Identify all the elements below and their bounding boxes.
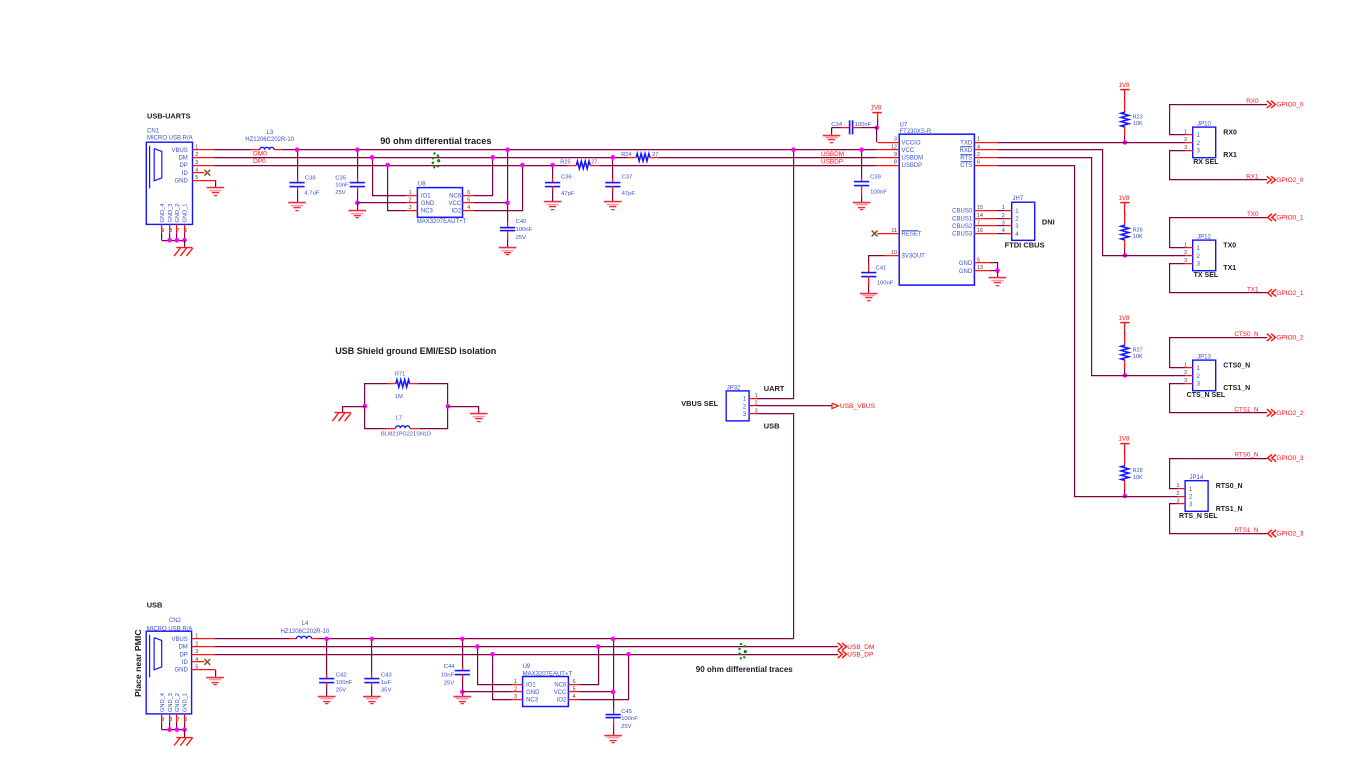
- svg-text:VBUS: VBUS: [171, 148, 187, 154]
- wire CN1 shell to earth: [184, 240, 186, 247]
- svg-text:VCCIO: VCCIO: [902, 140, 921, 146]
- junction U7 GND node: [995, 268, 1000, 273]
- wire U7 GND to ground: [997, 271, 999, 278]
- svg-text:R28: R28: [1133, 468, 1143, 474]
- svg-text:RTS1_N: RTS1_N: [1216, 506, 1243, 513]
- svg-text:3V3OUT: 3V3OUT: [902, 254, 926, 260]
- wire CN1 shell ground bus: [162, 240, 185, 242]
- svg-text:R26: R26: [1133, 227, 1143, 233]
- capacitor C41 100nF: [861, 264, 894, 293]
- svg-text:USBDP: USBDP: [821, 159, 843, 166]
- svg-text:GND_2: GND_2: [175, 693, 181, 712]
- wire JP13 pin1 to port: [1170, 338, 1268, 368]
- svg-text:GPIO0_3: GPIO0_3: [1276, 455, 1303, 462]
- power symbol 1V8 at R26: [1119, 195, 1130, 216]
- svg-text:VBUS SEL: VBUS SEL: [681, 399, 718, 408]
- svg-text:10K: 10K: [1133, 234, 1143, 240]
- CN2 pin 4 ID stub: [192, 661, 205, 663]
- svg-text:3: 3: [1184, 378, 1187, 384]
- inductor L3 HZ1206C202R-10: [245, 130, 294, 150]
- wire VBUS2 CN2 to L4: [215, 638, 290, 640]
- svg-text:100nF: 100nF: [870, 190, 887, 196]
- svg-text:1V8: 1V8: [1119, 195, 1130, 202]
- wire DP to U8 NC3: [388, 165, 407, 211]
- jumper JP13 CTS_N SEL: [1185, 354, 1215, 390]
- wire VBUS2 down to C45: [613, 639, 615, 710]
- junction 1V8 / C34 / VCCIO node: [875, 126, 880, 131]
- wire JP12 pin1 to port: [1170, 218, 1268, 248]
- svg-text:1V8: 1V8: [871, 105, 882, 112]
- svg-text:27: 27: [652, 152, 658, 158]
- svg-text:DM: DM: [178, 645, 187, 651]
- junction R23 / RX SEL pin2 node: [1123, 140, 1128, 145]
- wire C34 node to U7 VCCIO: [876, 128, 878, 142]
- svg-text:DM0: DM0: [253, 151, 267, 158]
- svg-text:47pF: 47pF: [622, 191, 636, 197]
- wire DM bus R24 to U7: [658, 157, 877, 159]
- svg-text:FTDI CBUS: FTDI CBUS: [1005, 240, 1045, 249]
- junction DM2 / U9 IO1 riser: [475, 644, 480, 649]
- svg-text:DP0: DP0: [253, 158, 266, 165]
- ground below C44: [454, 697, 472, 704]
- junction CN1 shell gnd b: [175, 238, 180, 243]
- port USB_DM: [838, 643, 842, 650]
- svg-text:1V8: 1V8: [1119, 82, 1130, 89]
- svg-text:VCC: VCC: [554, 690, 567, 696]
- resistor R23 10K: [1121, 99, 1143, 142]
- svg-text:GND: GND: [174, 178, 188, 184]
- svg-text:GND_3: GND_3: [168, 204, 174, 223]
- svg-text:NC6: NC6: [554, 682, 567, 688]
- port GPIO0_0: [1267, 101, 1271, 108]
- capacitor C34 100nF (horizontal): [831, 120, 877, 135]
- junction CN1 shell gnd c: [182, 238, 187, 243]
- capacitor C36 47pF: [545, 165, 575, 202]
- ground below C45: [604, 736, 622, 743]
- svg-text:HZ1206C202R-10: HZ1206C202R-10: [245, 137, 294, 143]
- wire JP10 pin1 to port: [1170, 105, 1268, 135]
- resistor R24 27: [621, 152, 658, 161]
- svg-text:DP: DP: [179, 652, 187, 658]
- svg-text:USB_DM: USB_DM: [847, 644, 874, 651]
- svg-text:C40: C40: [516, 219, 528, 225]
- ground below C43: [363, 697, 381, 704]
- jumper JP32 VBUS SEL: [726, 386, 757, 421]
- svg-text:100nF: 100nF: [877, 280, 894, 286]
- junction U8 VCC / C40 node: [505, 201, 510, 206]
- svg-text:2: 2: [1177, 491, 1180, 497]
- svg-text:TX1: TX1: [1223, 265, 1236, 272]
- capacitor C44 10nF 25V: [441, 639, 470, 696]
- svg-text:GND: GND: [421, 201, 435, 207]
- junction VBUS2 / C43: [370, 637, 375, 642]
- svg-text:U7: U7: [900, 122, 908, 128]
- wire JP14 pin1 to port: [1170, 459, 1268, 489]
- svg-text:TX1: TX1: [1247, 287, 1259, 294]
- svg-text:3: 3: [1184, 258, 1187, 264]
- wire JP32 pin2 to USB_VBUS port: [757, 405, 832, 407]
- svg-text:5: 5: [573, 686, 576, 692]
- svg-text:1M: 1M: [395, 394, 403, 400]
- ground below C35: [349, 211, 367, 218]
- svg-text:TX SEL: TX SEL: [1194, 272, 1219, 279]
- ground below C42: [318, 697, 336, 704]
- ground at shield right: [470, 414, 488, 422]
- svg-text:100nF: 100nF: [516, 227, 533, 233]
- junction DM2 / U9 NC6 riser: [596, 644, 601, 649]
- svg-text:6: 6: [977, 160, 980, 166]
- wire VBUS bus L3 to U7 VCC: [282, 149, 877, 151]
- inductor L4 HZ1206C202R-10: [281, 621, 330, 639]
- port GPIO0_2: [1267, 334, 1271, 341]
- svg-text:BLM21PG221SN1D: BLM21PG221SN1D: [381, 432, 431, 438]
- svg-text:ID: ID: [182, 171, 189, 177]
- ground below C37: [604, 202, 622, 210]
- JP10 pin numbers: [1184, 130, 1187, 151]
- wire JP13 pin3 to port: [1170, 384, 1268, 413]
- U7 left pin names: [902, 140, 926, 259]
- svg-text:25V: 25V: [335, 190, 346, 196]
- svg-text:IO2: IO2: [452, 209, 462, 215]
- svg-text:2: 2: [409, 197, 412, 203]
- svg-text:8: 8: [894, 160, 897, 166]
- svg-text:USB_DP: USB_DP: [847, 652, 873, 659]
- CN1 pin 5 GND stub: [193, 180, 216, 182]
- svg-text:HZ1206C202R-10: HZ1206C202R-10: [281, 629, 330, 635]
- svg-text:R24: R24: [621, 152, 631, 158]
- junction VBUS / C35: [355, 147, 360, 152]
- junction C35 / U8 GND node: [355, 201, 360, 206]
- ground below C36: [544, 202, 562, 210]
- ferrite bead L7 BLM21PG221SN1D: [381, 416, 431, 438]
- ground below U7 GND pins: [989, 278, 1007, 286]
- JP32 pin numbers: [755, 393, 758, 414]
- earth ground below CN2: [174, 738, 193, 746]
- svg-text:25V: 25V: [336, 688, 347, 694]
- svg-text:25V: 25V: [516, 235, 527, 241]
- U8 pin numbers: [409, 190, 471, 211]
- junction DP / U8 IO2 riser: [520, 163, 525, 168]
- ESD protector U9 MAX3207EAUT+T: [512, 664, 580, 706]
- resistor R71 1M: [388, 371, 418, 400]
- junction DM / U8 NC6 riser: [491, 155, 496, 160]
- svg-text:C37: C37: [622, 175, 633, 181]
- svg-text:RX1: RX1: [1223, 152, 1237, 159]
- JP13 pin numbers: [1184, 363, 1187, 384]
- wire U9 VCC to VBUS2 and C45: [579, 691, 613, 693]
- wire DM2 bus: [215, 646, 839, 648]
- svg-text:CN1: CN1: [147, 129, 160, 135]
- wire JP14 pin3 to port: [1170, 504, 1268, 534]
- resistor R26 10K: [1121, 212, 1143, 256]
- svg-text:1uF: 1uF: [381, 680, 392, 686]
- wire RXD to JP12 pin2: [997, 150, 1185, 256]
- wire CN2 shell ground bus: [162, 729, 185, 731]
- junction VBUS2 / C42: [324, 637, 329, 642]
- svg-text:DM: DM: [178, 155, 187, 161]
- U9 pin numbers: [514, 679, 576, 700]
- wire shield loop left: [365, 384, 388, 429]
- IC U7 FT230XS-R: [899, 122, 974, 285]
- svg-text:4: 4: [573, 694, 576, 700]
- capacitor C42 100nF: [319, 639, 353, 696]
- svg-text:10K: 10K: [1133, 475, 1143, 481]
- svg-text:90 ohm differential traces: 90 ohm differential traces: [380, 136, 491, 146]
- svg-text:3: 3: [195, 160, 198, 166]
- svg-text:RESET: RESET: [902, 232, 922, 238]
- wire VBUS2 L4 to JP32 riser: [319, 638, 794, 640]
- junction DP2 / U9 IO2 riser: [626, 652, 631, 657]
- svg-text:CTS: CTS: [960, 163, 972, 169]
- wire U9 NC6 to DM2: [579, 647, 598, 685]
- ground below C41: [860, 294, 878, 301]
- svg-text:6: 6: [573, 679, 576, 685]
- wire C35 node to U8 GND: [357, 202, 406, 204]
- junction DM / C37: [611, 155, 616, 160]
- svg-text:3: 3: [514, 694, 517, 700]
- svg-text:GND: GND: [174, 668, 188, 674]
- svg-text:CTS_N SEL: CTS_N SEL: [1187, 392, 1226, 399]
- CN1 pin 4 ID stub: [193, 172, 205, 174]
- svg-text:GND_1: GND_1: [183, 693, 189, 712]
- CN1 shell pin stubs: [162, 224, 185, 240]
- svg-text:L7: L7: [396, 416, 402, 422]
- U7 pin numbers: [891, 137, 983, 271]
- svg-text:GPIO2_1: GPIO2_1: [1276, 290, 1303, 297]
- capacitor C40 100nF 25V: [500, 219, 533, 247]
- wire DM to U8 IO1: [373, 157, 407, 195]
- junction VBUS2 / C44: [460, 637, 465, 642]
- svg-text:UART: UART: [764, 384, 785, 393]
- wire shield left to earth: [343, 407, 365, 413]
- svg-text:5: 5: [467, 197, 470, 203]
- svg-text:CTS1_N: CTS1_N: [1223, 385, 1250, 392]
- resistor R28 10K: [1121, 453, 1143, 497]
- connector CN2 MICRO USB R/A: [146, 618, 192, 714]
- svg-text:RTS1_N: RTS1_N: [1234, 527, 1258, 534]
- CN2 pin stubs 1-3: [192, 638, 215, 640]
- earth ground below CN1: [174, 248, 193, 257]
- CN1 pin stubs 1-3: [193, 149, 215, 151]
- svg-text:GPIO0_0: GPIO0_0: [1276, 102, 1303, 109]
- wire U9 IO2 to DP2: [579, 654, 628, 699]
- svg-text:GPIO0_2: GPIO0_2: [1276, 335, 1303, 342]
- junction R28 / RTS_N SEL pin2 node: [1123, 494, 1128, 499]
- wire DM2 to U9 IO1: [478, 647, 512, 685]
- wire CTS to JP14 pin2: [997, 166, 1177, 497]
- junction DM / U8 IO1 riser: [370, 155, 375, 160]
- wires CBUS0-3 to JH7: [997, 211, 1004, 234]
- svg-text:L3: L3: [267, 130, 274, 136]
- port USB_VBUS: [832, 403, 838, 408]
- svg-text:GND_1: GND_1: [183, 204, 189, 223]
- svg-text:3: 3: [894, 137, 897, 143]
- svg-text:4.7uF: 4.7uF: [304, 191, 319, 197]
- svg-text:C43: C43: [381, 672, 393, 678]
- svg-text:14: 14: [977, 213, 983, 219]
- resistor R27 10K: [1121, 332, 1143, 376]
- power symbol 1V8 at R28: [1119, 436, 1130, 457]
- svg-text:CN2: CN2: [169, 618, 182, 624]
- svg-text:R27: R27: [1133, 347, 1143, 353]
- svg-text:TXD: TXD: [960, 140, 973, 146]
- svg-text:1V8: 1V8: [1119, 315, 1130, 322]
- svg-text:4: 4: [467, 205, 470, 211]
- svg-text:27: 27: [591, 160, 597, 166]
- svg-text:CBUS0: CBUS0: [952, 209, 973, 215]
- svg-text:GND_4: GND_4: [160, 693, 166, 712]
- svg-text:TX0: TX0: [1223, 243, 1236, 250]
- wire shield right to ground: [448, 407, 479, 414]
- no-connect X on CN1 ID: [204, 170, 210, 176]
- wire TXD to JP10 pin2: [997, 142, 1185, 144]
- junction C44 / U9 GND node: [460, 690, 465, 695]
- wire U8 IO2 to DP: [474, 165, 523, 211]
- svg-text:VCC: VCC: [902, 148, 915, 154]
- wire JP12 pin3 to port: [1170, 264, 1268, 293]
- svg-text:1: 1: [409, 190, 412, 196]
- CN2 pin numbers 1-5: [195, 634, 198, 671]
- no-connect X on U7 RESET: [872, 231, 878, 237]
- svg-text:GND_2: GND_2: [175, 204, 181, 223]
- svg-text:25V: 25V: [444, 680, 455, 686]
- junction R26 / TX SEL pin2 node: [1123, 253, 1128, 258]
- svg-text:10K: 10K: [1133, 354, 1143, 360]
- svg-text:RX0: RX0: [1223, 130, 1237, 137]
- svg-text:2: 2: [514, 686, 517, 692]
- wire JP32 pin1 to VBUS top: [757, 150, 794, 399]
- svg-text:3: 3: [1184, 145, 1187, 151]
- U7 right pin stubs: [974, 143, 997, 271]
- svg-text:DNI: DNI: [1042, 218, 1055, 227]
- svg-text:CTS0_N: CTS0_N: [1234, 331, 1259, 338]
- wire U8 NC6 to DM: [474, 157, 493, 195]
- capacitor C37 47pF: [605, 157, 635, 201]
- wire VBUS bus CN1 to L3: [215, 149, 252, 151]
- CN1 pin numbers 1-5: [195, 145, 198, 182]
- svg-text:RX1: RX1: [1246, 174, 1259, 181]
- wire DP2 bus: [215, 654, 839, 656]
- svg-text:GPIO0_1: GPIO0_1: [1276, 215, 1303, 222]
- svg-text:USB: USB: [764, 422, 780, 431]
- wire CN2 shell to earth: [184, 730, 186, 738]
- ground at CN2 pin5: [206, 678, 224, 685]
- junction VBUS / JP32 riser: [791, 147, 796, 152]
- wire C35 node to earth drop: [357, 203, 359, 211]
- svg-text:IO1: IO1: [421, 193, 431, 199]
- wire DP bus CN1 to R25: [215, 165, 568, 167]
- power symbol 1V8 at R23: [1119, 82, 1130, 103]
- svg-text:JH7: JH7: [1013, 196, 1024, 202]
- wire 1V8 to C34 node: [877, 126, 879, 128]
- svg-text:NC3: NC3: [421, 209, 434, 215]
- port USB_DP: [838, 651, 842, 658]
- junction CN2 shell gnd c: [182, 727, 187, 732]
- CN2 shell pin numbers 9 8 7 6: [161, 717, 187, 723]
- svg-text:MAX3207EAUT+T: MAX3207EAUT+T: [417, 219, 467, 225]
- svg-text:GND: GND: [959, 269, 973, 275]
- svg-text:CBUS2: CBUS2: [952, 224, 973, 230]
- svg-text:GND_4: GND_4: [160, 204, 166, 223]
- no-connect X on CN2 ID: [204, 659, 210, 665]
- resistor R25 27: [560, 160, 599, 169]
- port GPIO0_3: [1268, 454, 1272, 461]
- svg-text:25V: 25V: [621, 724, 632, 730]
- svg-text:CBUS1: CBUS1: [952, 216, 973, 222]
- differential pair via marker (top) green dots: [432, 152, 441, 168]
- capacitor C38 4.7uF: [289, 150, 319, 203]
- ESD protector U8 MAX3207EAUT+T: [406, 181, 473, 225]
- svg-text:90 ohm differential traces: 90 ohm differential traces: [696, 665, 793, 674]
- svg-text:USB Shield ground EMI/ESD isol: USB Shield ground EMI/ESD isolation: [335, 346, 496, 356]
- svg-text:100nF: 100nF: [336, 680, 353, 686]
- ground at CN1 pin5: [207, 188, 225, 196]
- CN2 shell pin stubs: [162, 714, 185, 730]
- junction VBUS / C40 riser: [505, 147, 510, 152]
- wire U8 VCC to VBUS and C40: [474, 202, 508, 204]
- svg-text:C39: C39: [870, 174, 881, 180]
- svg-text:1: 1: [977, 137, 980, 143]
- wire VBUS down to C40: [507, 150, 509, 223]
- svg-text:R25: R25: [560, 160, 570, 166]
- junction VBUS / C38: [295, 147, 300, 152]
- svg-text:10nF: 10nF: [335, 183, 349, 189]
- svg-text:RTS_N SEL: RTS_N SEL: [1179, 513, 1218, 520]
- svg-text:USBDM: USBDM: [821, 151, 844, 158]
- svg-text:RTS0_N: RTS0_N: [1234, 452, 1258, 459]
- wire DM bus CN1 to R24: [215, 157, 629, 159]
- svg-text:DP: DP: [179, 163, 187, 169]
- svg-text:IO1: IO1: [526, 682, 536, 688]
- svg-text:35V: 35V: [381, 688, 392, 694]
- svg-text:RX SEL: RX SEL: [1193, 159, 1219, 166]
- JP12 pin numbers: [1184, 243, 1187, 264]
- port GPIO2_0: [1267, 176, 1271, 183]
- capacitor C43 1uF: [364, 639, 392, 696]
- differential pair via marker (bottom) green dots: [738, 643, 747, 660]
- CN2 shell pins GND_4..GND_1 labels: [160, 693, 189, 712]
- svg-text:GPIO2_0: GPIO2_0: [1276, 177, 1303, 184]
- wire DP2 to U9 NC3: [493, 654, 512, 699]
- svg-text:C45: C45: [621, 709, 633, 715]
- wire DP bus R25 to U7: [599, 165, 877, 167]
- CN1 shell pin numbers 9 8 7 6: [161, 228, 187, 234]
- CN1 shell pins GND_4..GND_1 labels: [160, 204, 189, 223]
- capacitor C45 100nF 25V: [606, 709, 639, 735]
- svg-text:CTS0_N: CTS0_N: [1223, 363, 1250, 370]
- svg-text:C44: C44: [444, 664, 456, 670]
- svg-text:6: 6: [467, 190, 470, 196]
- svg-text:1V8: 1V8: [1119, 436, 1130, 443]
- wire C44 node to U9 GND: [462, 691, 511, 693]
- wire shield loop right: [418, 384, 448, 429]
- ground below C34: [823, 136, 841, 143]
- svg-text:GPIO2_3: GPIO2_3: [1276, 531, 1303, 538]
- power symbol 1V8 at R27: [1119, 315, 1130, 336]
- svg-text:10nF: 10nF: [441, 672, 455, 678]
- junction DP2 / U9 NC3 riser: [490, 652, 495, 657]
- svg-text:RX0: RX0: [1246, 98, 1259, 105]
- port GPIO2_1: [1268, 289, 1272, 296]
- CN2 pin 5 GND stub: [192, 669, 216, 671]
- svg-text:USBDM: USBDM: [902, 156, 924, 162]
- svg-text:2: 2: [1002, 213, 1005, 219]
- svg-text:CBUS3: CBUS3: [952, 232, 973, 238]
- svg-text:L4: L4: [302, 621, 309, 627]
- junction CN2 shell gnd a: [167, 727, 172, 732]
- svg-text:TX0: TX0: [1247, 211, 1259, 218]
- svg-text:CTS1_N: CTS1_N: [1234, 407, 1259, 414]
